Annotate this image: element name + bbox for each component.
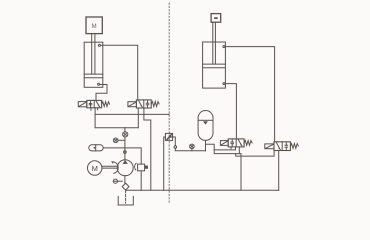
rotation arrow bbox=[114, 162, 118, 174]
wire V2 right stub to tank bus bbox=[144, 108, 151, 190]
spring V1 bbox=[102, 102, 110, 107]
valve V4 bbox=[265, 142, 299, 151]
wire X1 left port to tank bus bbox=[164, 137, 166, 190]
node pump junction bbox=[124, 151, 127, 154]
wire bus B bbox=[95, 127, 138, 129]
wire A1 to pump line bbox=[103, 147, 125, 149]
wire bus A bbox=[95, 113, 169, 115]
node C2 top port bbox=[223, 46, 225, 48]
wire tank bus bbox=[126, 189, 279, 191]
wire V1 riser bbox=[94, 108, 96, 128]
gauge G3 bbox=[190, 144, 195, 151]
blocked symbol V3 left cell bbox=[231, 140, 233, 142]
blocked symbol V4 right cell bbox=[285, 143, 287, 146]
arrow V3 right cell bbox=[238, 140, 242, 147]
blocked symbol V1 left cell bbox=[90, 101, 92, 103]
tank T1 bbox=[118, 196, 133, 205]
wire relief branch bbox=[125, 148, 141, 164]
wire C2 bottom to V3 bbox=[225, 84, 236, 139]
test point G2 bbox=[123, 132, 128, 137]
relief valve RV1 bbox=[138, 164, 148, 190]
solenoid V1 bbox=[78, 102, 87, 107]
node C1 bottom port bbox=[98, 83, 100, 85]
piston rod R2 bbox=[212, 22, 214, 64]
wire V4 right stub to tank bus bbox=[278, 151, 280, 191]
wire mid line to V4 bbox=[236, 151, 274, 157]
solenoid V3 bbox=[220, 141, 228, 146]
pilot arc bbox=[135, 163, 137, 170]
body V4 bbox=[274, 142, 290, 151]
node C1 top port bbox=[98, 44, 100, 46]
accumulator A1 horizontal bbox=[89, 145, 125, 151]
cylinder C2 bbox=[203, 42, 226, 88]
wire X1 right port down bbox=[173, 137, 176, 146]
arrow V1 right cell bbox=[96, 101, 100, 107]
wire C1 top to V2 bbox=[101, 45, 138, 100]
wire strainer to tank (dashed) bbox=[125, 190, 127, 203]
arrow V4 left cell bbox=[276, 143, 280, 150]
node junction J2 bbox=[174, 146, 177, 149]
wire V3 right stub bbox=[238, 147, 240, 154]
wire pump suction bbox=[124, 176, 126, 183]
body V1 bbox=[87, 100, 102, 107]
spring V3 bbox=[244, 141, 252, 146]
wire RV1 to tank bus bbox=[140, 171, 142, 191]
wire V3 return riser bbox=[240, 154, 242, 191]
dotted boundary / pilot line bbox=[168, 3, 170, 204]
shaft bbox=[102, 165, 117, 167]
cylinder C1 bbox=[84, 42, 103, 87]
svg-text:M: M bbox=[92, 24, 97, 30]
spring V4 bbox=[290, 144, 298, 149]
mass M1 bbox=[86, 17, 102, 34]
spring V2 bbox=[151, 102, 159, 107]
wire pump column bbox=[124, 128, 126, 132]
wire C1 bottom to V1 bbox=[96, 85, 107, 101]
valve V1 bbox=[78, 100, 109, 110]
pump P1 bbox=[117, 160, 133, 176]
arrow V2 left cell bbox=[139, 101, 143, 107]
strainer D1 bbox=[122, 183, 129, 190]
orifice valve X1 on pilot line bbox=[164, 133, 176, 190]
node C2 bottom port bbox=[223, 83, 225, 85]
blocked symbol V2 right cell bbox=[147, 101, 149, 104]
wire A2 branch to valves bbox=[206, 144, 242, 153]
wire C2 top to V4 bbox=[225, 47, 275, 142]
body V2 bbox=[136, 100, 151, 108]
solenoid V2 bbox=[128, 102, 136, 107]
wire right pressure line bbox=[175, 148, 205, 151]
accumulator A2 bbox=[198, 111, 241, 154]
breather B1 bbox=[113, 179, 122, 183]
valve V3 bbox=[220, 139, 252, 149]
gauge G1 bbox=[113, 138, 125, 143]
mass M2 bbox=[211, 14, 221, 23]
body V3 bbox=[228, 139, 244, 147]
pin ticks V1 bbox=[90, 108, 92, 111]
pin tick V3 bbox=[230, 147, 232, 149]
motor M bbox=[88, 161, 119, 175]
valve V2 bbox=[128, 100, 159, 108]
piston rod R1 bbox=[91, 34, 93, 75]
solenoid V4 bbox=[265, 144, 274, 149]
wire V2 left stub down bbox=[137, 108, 139, 128]
wire V3 left stub bbox=[235, 147, 237, 150]
wire A2 down bbox=[205, 140, 207, 150]
svg-text:M: M bbox=[92, 164, 98, 173]
